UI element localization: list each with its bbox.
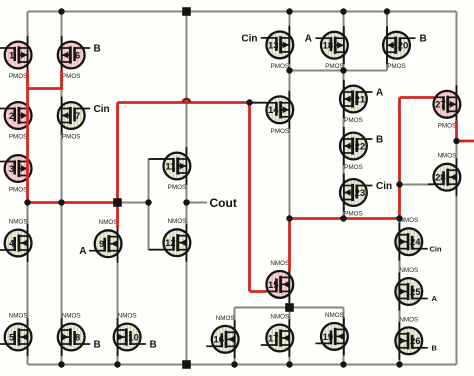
svg-text:4: 4 [9, 238, 15, 249]
svg-text:26: 26 [410, 336, 421, 347]
transistor PMOS M11 [149, 147, 191, 191]
junction highlighted net / M28 gate [396, 181, 402, 187]
transistor NMOS M4 [0, 219, 32, 263]
junction bottom rail / M19 source [340, 361, 346, 367]
svg-text:20: 20 [398, 41, 409, 52]
svg-text:PMOS: PMOS [62, 134, 81, 141]
wire highlighted M15 drain stub [288, 219, 291, 271]
svg-text:PMOS: PMOS [344, 164, 363, 171]
junction bottom rail / M10 source [114, 361, 120, 367]
junction M27 source / stub [453, 138, 459, 144]
svg-text:5: 5 [9, 332, 15, 343]
wire left column M1-M5 drain/source chain [27, 12, 29, 365]
wire highlighted stub to M9 drain [116, 203, 119, 228]
svg-text:2: 2 [9, 111, 14, 122]
svg-text:1: 1 [9, 50, 15, 61]
svg-text:13: 13 [268, 40, 279, 51]
svg-text:16: 16 [213, 335, 224, 346]
transistor NMOS M15 [263, 260, 293, 304]
node square top rail / inverter column [182, 7, 191, 16]
wire M16 drain/source chain [234, 308, 236, 365]
junction inverter input [145, 199, 151, 205]
svg-text:B: B [94, 340, 101, 351]
svg-text:A: A [305, 34, 312, 45]
junction bottom rail / M17 source [286, 361, 292, 367]
wire to M14 gate [250, 102, 267, 104]
transistor NMOS M19 [315, 312, 347, 356]
junction bottom rail / M16 source [231, 361, 237, 367]
wire column M24-M25-M26 chain [399, 219, 401, 365]
wire highlighted horizontal to node square [26, 201, 117, 204]
transistor NMOS M16 [206, 315, 238, 359]
svg-text:PMOS: PMOS [168, 184, 187, 191]
svg-text:PMOS: PMOS [9, 134, 28, 141]
junction Cout node [183, 199, 189, 205]
svg-text:NMOS: NMOS [9, 219, 28, 226]
svg-text:Cin: Cin [241, 33, 257, 44]
svg-text:NMOS: NMOS [325, 312, 344, 319]
wire to M12 gate [149, 249, 165, 251]
svg-text:PMOS: PMOS [387, 63, 406, 70]
svg-text:B: B [94, 43, 101, 54]
wire highlighted horizontal across [118, 101, 250, 104]
svg-text:3: 3 [9, 164, 14, 175]
wire highlighted vertical down to M15 gate row [248, 101, 251, 292]
wire highlighted vertical rise [116, 103, 119, 204]
svg-text:PMOS: PMOS [271, 63, 290, 70]
transistor PMOS M6 [58, 36, 90, 80]
junction M14 source / M15 drain [286, 215, 292, 221]
svg-text:A: A [79, 246, 86, 257]
svg-text:18: 18 [323, 41, 334, 52]
junction top rail / M18 drain [340, 8, 346, 14]
svg-text:28: 28 [435, 173, 446, 184]
wire column M13-M14-M15 drain/source chain [289, 12, 291, 308]
wire highlighted M27 source segment [455, 121, 458, 142]
svg-text:8: 8 [75, 332, 80, 343]
wire highlighted horizontal right net [288, 217, 400, 220]
wire inverter gate bracket [148, 159, 150, 250]
svg-text:9: 9 [99, 239, 104, 250]
svg-text:B: B [150, 340, 157, 351]
wire VDD top rail [28, 11, 457, 13]
wire highlighted branch to M6 source [28, 87, 62, 90]
svg-text:PMOS: PMOS [62, 73, 81, 80]
wire highlighted to M15 gate [250, 290, 267, 293]
svg-text:B: B [420, 34, 427, 45]
junction top rail / M6 drain [58, 8, 64, 14]
transistor PMOS M23 [340, 174, 372, 218]
wire net joining M16 M17 M19 drains [235, 307, 344, 309]
wire net below M13 M18 M20 sources [290, 70, 388, 72]
transistor NMOS M10 [114, 313, 146, 357]
transistor NMOS M24 [395, 217, 427, 261]
svg-text:22: 22 [355, 141, 366, 152]
svg-text:15: 15 [268, 280, 279, 291]
wire hop where highlighted net crosses inverter column [183, 99, 190, 103]
svg-text:B: B [376, 135, 383, 146]
wire column M6-M7-M8 drain/source chain [61, 12, 63, 365]
wire column M9-M10 drain/source chain [117, 203, 119, 365]
svg-text:NMOS: NMOS [270, 260, 289, 267]
svg-text:PMOS: PMOS [271, 128, 290, 135]
svg-text:PMOS: PMOS [344, 211, 363, 218]
svg-text:NMOS: NMOS [437, 153, 456, 160]
wire highlighted to M27 gate [400, 96, 434, 99]
svg-text:27: 27 [435, 100, 446, 111]
transistor NMOS M26 [395, 316, 427, 360]
wire highlighted M6 source drop [60, 70, 63, 90]
svg-text:Cin: Cin [430, 244, 443, 253]
svg-text:A: A [432, 294, 438, 303]
wire M17 source to bottom rail [289, 308, 291, 365]
svg-text:10: 10 [128, 332, 139, 343]
svg-text:NMOS: NMOS [216, 315, 235, 322]
svg-text:Cout: Cout [210, 196, 237, 210]
junction M18 source / M21 drain [340, 67, 346, 73]
svg-text:7: 7 [75, 111, 80, 122]
transistor PMOS M18 [315, 26, 347, 70]
svg-text:NMOS: NMOS [118, 313, 137, 320]
svg-text:23: 23 [355, 188, 366, 199]
transistor PMOS M3 [0, 150, 32, 194]
wire M20 drain/source branch [386, 12, 388, 71]
junction M7 source / M8 drain [58, 199, 64, 205]
junction bottom rail / M8 source [58, 361, 64, 367]
wire VSS bottom rail [28, 364, 457, 366]
wire column M18-M21-M22-M23 chain [343, 12, 345, 219]
junction M24 drain [396, 215, 402, 221]
transistor PMOS M2 [0, 97, 32, 141]
wire node to inverter input [118, 202, 149, 204]
transistor NMOS M12 [149, 218, 191, 262]
svg-text:24: 24 [410, 237, 421, 248]
transistor NMOS M28 [428, 153, 460, 197]
transistor PMOS M21 [340, 80, 372, 124]
junction M23 source [340, 215, 346, 221]
svg-text:NMOS: NMOS [167, 218, 186, 225]
svg-text:NMOS: NMOS [9, 313, 28, 320]
transistor NMOS M17 [261, 314, 293, 358]
transistor PMOS M14 [250, 91, 294, 135]
wire highlighted path M1 source through M2 M3 [26, 70, 29, 203]
junction M3 source / M4 drain [24, 199, 30, 205]
node square bottom rail / M12 source [182, 360, 191, 369]
svg-text:PMOS: PMOS [9, 73, 28, 80]
svg-text:Cin: Cin [94, 104, 110, 115]
svg-text:6: 6 [75, 50, 80, 61]
svg-text:PMOS: PMOS [438, 122, 457, 129]
transistor NMOS M5 [0, 313, 32, 357]
node square M15 source net [285, 303, 294, 312]
svg-text:11: 11 [165, 161, 176, 172]
junction M13 source net [286, 67, 292, 73]
junction highlighted net / M14 gate [246, 99, 252, 105]
svg-text:A: A [376, 88, 383, 99]
transistor PMOS M27 [430, 85, 460, 129]
junction bottom rail / M26 source [396, 361, 402, 367]
transistor NMOS M9 [89, 219, 121, 263]
svg-text:PMOS: PMOS [9, 187, 28, 194]
transistor NMOS M8 [58, 313, 90, 357]
transistor PMOS M22 [340, 127, 372, 171]
svg-text:NMOS: NMOS [99, 219, 118, 226]
wire to M28 gate [400, 184, 435, 186]
transistor PMOS M1 [0, 36, 32, 80]
svg-text:NMOS: NMOS [270, 314, 289, 321]
svg-text:NMOS: NMOS [62, 313, 81, 320]
svg-text:19: 19 [323, 332, 334, 343]
junction top rail / M13 drain [286, 8, 292, 14]
node square highlighted net [113, 198, 122, 207]
svg-text:PMOS: PMOS [344, 117, 363, 124]
svg-text:B: B [432, 344, 438, 353]
transistor PMOS M20 [383, 26, 415, 70]
transistor PMOS M7 [58, 97, 90, 141]
junction top rail / M20 drain [384, 8, 390, 14]
wire to M11 gate [149, 158, 165, 160]
wire highlighted vertical to M27 gate row [398, 98, 401, 220]
svg-text:21: 21 [355, 94, 366, 105]
svg-text:NMOS: NMOS [399, 267, 418, 274]
svg-text:Cin: Cin [376, 181, 392, 192]
svg-text:NMOS: NMOS [399, 316, 418, 323]
wire highlighted stub exiting right [457, 140, 474, 143]
wire right supply column M27-M28 [456, 12, 458, 365]
svg-text:17: 17 [268, 333, 279, 344]
transistor NMOS M25 [395, 267, 427, 311]
wire M19 drain/source chain [343, 308, 345, 365]
transistor PMOS M13 [261, 26, 293, 70]
svg-text:25: 25 [410, 287, 421, 298]
wire Cout output stub [187, 202, 208, 204]
wire inverter column M11-M12 [186, 12, 188, 365]
svg-text:12: 12 [165, 238, 176, 249]
svg-text:14: 14 [268, 105, 279, 116]
